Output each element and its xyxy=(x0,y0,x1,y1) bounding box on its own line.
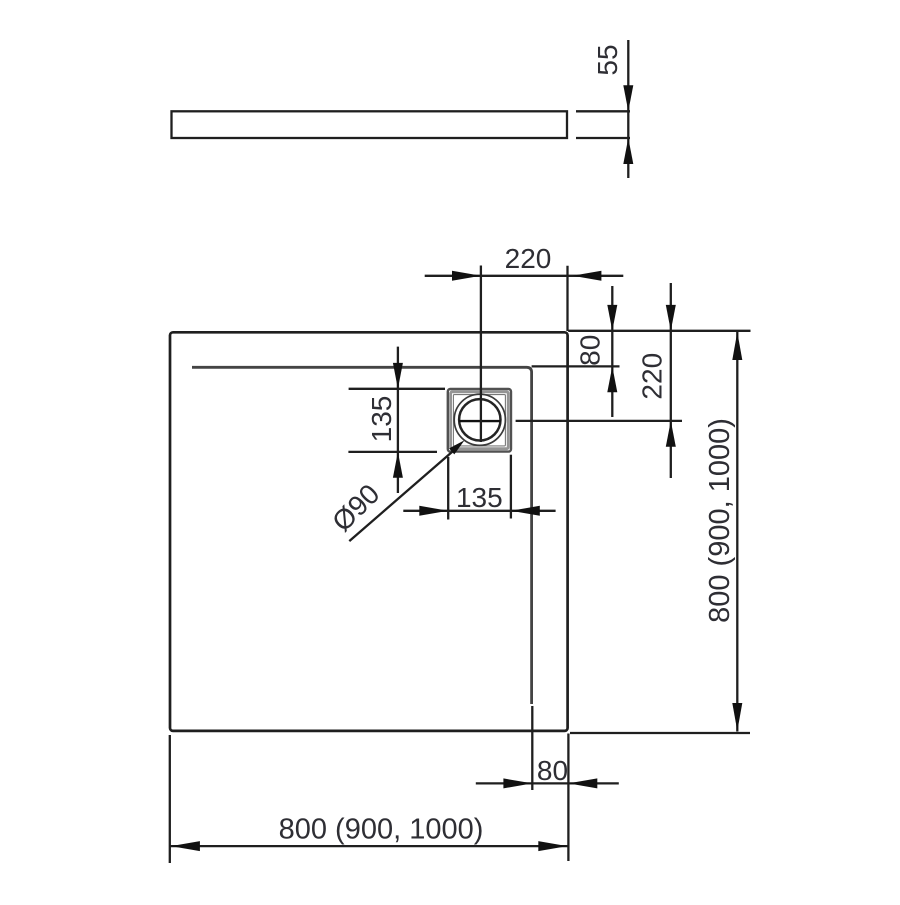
drain outer circle xyxy=(454,394,505,445)
arrow up for 135 vertical xyxy=(393,452,403,478)
extension of square top edge to the right xyxy=(568,330,750,332)
dimension line 220 top xyxy=(425,275,624,277)
arrow down for 80 right xyxy=(607,305,617,331)
arrow down for 220 right xyxy=(666,305,676,331)
dimension line 135 vertical xyxy=(397,347,399,493)
dimension line 55 xyxy=(627,40,629,178)
extension of bottom edge to the right xyxy=(570,732,750,734)
arrow up for 800 right xyxy=(732,332,742,360)
arrow left-pointing at left end for 800 bottom xyxy=(171,841,200,851)
extension line drain top to left xyxy=(349,388,445,390)
extension of inner top line to the right xyxy=(532,365,620,367)
inner sloped edge line (top and right, gray) xyxy=(192,367,532,704)
drain center vertical line xyxy=(480,266,482,443)
drain outer square xyxy=(448,389,511,452)
extension line right edge below square xyxy=(567,734,569,862)
svg-text:800 (900, 1000): 800 (900, 1000) xyxy=(704,418,736,623)
extension line below drain left edge xyxy=(447,457,449,520)
arrow up for 220 right xyxy=(666,421,676,447)
extension line drain bottom to left xyxy=(348,451,437,453)
side view tray rectangle xyxy=(172,111,568,138)
drain bevel frame xyxy=(451,392,509,449)
drain center horizontal extension to right xyxy=(516,420,682,422)
arrow right-pointing at right end for 800 bottom xyxy=(538,841,567,851)
svg-text:55: 55 xyxy=(592,44,623,75)
drain bevel inner edge xyxy=(453,395,505,446)
dimension line 80 bottom xyxy=(476,782,619,784)
drain crosshair horizontal xyxy=(459,420,501,422)
arrow right-pointing for 220 top xyxy=(452,271,481,281)
dimension line 135 horizontal xyxy=(403,510,555,512)
dimension line 220 right xyxy=(670,283,672,478)
extension line below drain right edge xyxy=(510,455,512,519)
leader line for drain diameter xyxy=(349,449,456,542)
dimension line 800 bottom xyxy=(170,845,569,847)
extension line left edge below square xyxy=(169,735,171,863)
arrow right-pointing for 80 bottom xyxy=(503,778,532,788)
dimension line 80 right xyxy=(611,286,613,417)
svg-text:80: 80 xyxy=(537,755,568,786)
main square tray outline xyxy=(170,332,568,731)
extension above square right corner for 220 top xyxy=(566,266,568,331)
arrow down for 135 vertical xyxy=(393,363,403,389)
svg-text:80: 80 xyxy=(575,335,606,366)
svg-text:220: 220 xyxy=(636,353,667,400)
arrow left-pointing for 135 horizontal xyxy=(511,506,540,516)
arrow up for 80 right xyxy=(607,366,617,392)
arrow right-pointing for 135 horizontal xyxy=(419,506,448,516)
arrow down for 800 right xyxy=(732,703,742,731)
svg-text:135: 135 xyxy=(366,396,397,443)
arrow up for 55 xyxy=(623,138,633,164)
arrow left-pointing for 80 bottom xyxy=(568,778,597,788)
leader arrowhead xyxy=(449,440,464,454)
extension line inner edge below square xyxy=(531,706,533,790)
svg-text:800 (900, 1000): 800 (900, 1000) xyxy=(279,813,484,845)
arrow down for 55 xyxy=(623,85,633,111)
arrow left-pointing for 220 top xyxy=(573,271,602,281)
drain inner circle xyxy=(459,399,500,440)
svg-text:220: 220 xyxy=(505,243,552,274)
extension line top of side view xyxy=(576,110,630,112)
dimension line 800 right xyxy=(736,332,738,732)
extension line bottom of side view xyxy=(576,137,630,139)
svg-text:135: 135 xyxy=(456,482,503,513)
